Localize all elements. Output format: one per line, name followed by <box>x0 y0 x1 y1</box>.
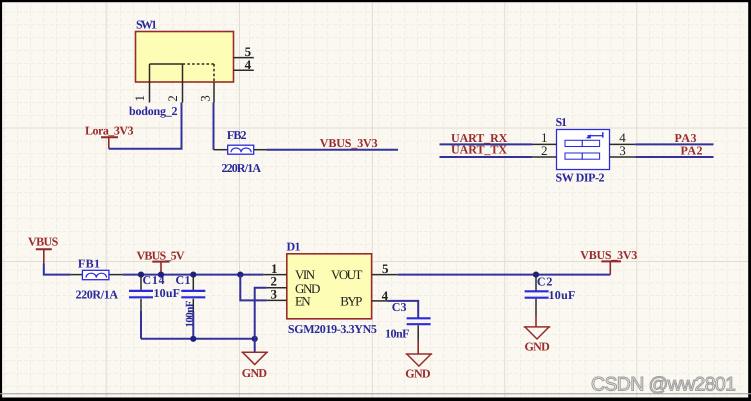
wire VBUS to FB1 <box>44 263 71 274</box>
svg-text:EN: EN <box>295 293 311 308</box>
pin 4 of S1 <box>610 143 636 145</box>
capacitor C14 <box>129 273 180 339</box>
wire UART_TX <box>440 156 533 158</box>
wire to ground symbol <box>254 339 256 352</box>
pin 5 VOUT <box>372 274 398 276</box>
svg-text:10uF: 10uF <box>154 286 181 300</box>
wire ground rail <box>141 338 255 340</box>
wire BYP to C3 <box>388 301 419 318</box>
ground (under C1/C14) <box>241 352 268 380</box>
svg-text:VBUS: VBUS <box>28 235 59 249</box>
svg-text:CSDN @ww2801: CSDN @ww2801 <box>591 374 736 396</box>
pin 4 of SW1 <box>234 69 254 71</box>
svg-text:C14: C14 <box>143 273 165 287</box>
junction at C14 <box>138 272 144 278</box>
wire GND branch <box>255 288 267 339</box>
svg-text:220R/1A: 220R/1A <box>222 161 262 175</box>
svg-text:FB1: FB1 <box>78 256 100 270</box>
svg-text:bodong_2: bodong_2 <box>129 104 178 118</box>
capacitor C2 <box>525 275 576 327</box>
svg-text:C2: C2 <box>537 275 553 289</box>
pin 3 EN <box>267 299 287 301</box>
svg-text:220R/1A: 220R/1A <box>76 287 119 301</box>
ferrite bead FB1 <box>71 256 123 301</box>
ground (under C2) <box>524 327 551 354</box>
capacitor C3 <box>385 300 431 354</box>
svg-text:2: 2 <box>541 143 548 158</box>
svg-text:FB2: FB2 <box>227 128 247 142</box>
capacitor C1 <box>176 273 206 339</box>
wire EN branch <box>240 275 266 301</box>
junction at VBUS_5V <box>158 272 164 278</box>
wire SW1 pin 3 down to FB2 <box>213 103 215 150</box>
svg-text:10uF: 10uF <box>549 288 576 302</box>
junction EN branch <box>237 272 243 278</box>
svg-text:SW DIP-2: SW DIP-2 <box>556 170 605 184</box>
svg-text:SGM2019-3.3YN5: SGM2019-3.3YN5 <box>288 322 377 336</box>
wire UART_RX <box>440 143 533 145</box>
svg-text:S1: S1 <box>556 115 568 129</box>
switch SW1 <box>132 18 254 103</box>
svg-text:3: 3 <box>271 287 278 302</box>
svg-text:C3: C3 <box>392 300 407 314</box>
svg-text:10nF: 10nF <box>385 327 410 341</box>
svg-text:GND: GND <box>405 366 431 380</box>
svg-text:VIN: VIN <box>295 267 316 282</box>
svg-text:SW1: SW1 <box>136 18 157 32</box>
power port VBUS <box>28 235 59 264</box>
junction at C2 <box>533 272 539 278</box>
power port Lora_3V3 <box>85 124 134 149</box>
ground (under C3) <box>405 354 432 380</box>
svg-text:BYP: BYP <box>340 293 362 308</box>
pin 2 GND <box>267 287 287 289</box>
svg-text:3: 3 <box>619 143 626 158</box>
border frame <box>0 0 751 2</box>
svg-text:Lora_3V3: Lora_3V3 <box>85 124 134 138</box>
svg-text:UART_TX: UART_TX <box>451 142 507 156</box>
svg-text:VBUS_5V: VBUS_5V <box>137 248 185 262</box>
svg-text:5: 5 <box>382 261 389 276</box>
svg-text:VBUS_3V3: VBUS_3V3 <box>320 136 378 150</box>
pin 2 of S1 <box>532 156 557 158</box>
svg-text:1: 1 <box>132 95 147 102</box>
switch S1 SW DIP-2 <box>532 115 635 184</box>
svg-text:3: 3 <box>198 95 213 102</box>
pin 3 of S1 <box>610 156 636 158</box>
svg-text:D1: D1 <box>287 240 301 254</box>
svg-text:VOUT: VOUT <box>331 267 362 282</box>
junction on ground rail at C1 <box>190 336 196 342</box>
wire PA2 <box>635 156 713 158</box>
svg-text:4: 4 <box>245 57 252 72</box>
pin 1 VIN <box>264 274 287 276</box>
junction at C1 <box>190 272 196 278</box>
wire Lora_3V3 to SW1 pin 2 <box>109 103 182 149</box>
svg-text:C1: C1 <box>176 273 191 287</box>
svg-text:PA2: PA2 <box>681 144 703 158</box>
wire PA3 <box>635 143 713 145</box>
ferrite bead FB2 <box>214 128 267 175</box>
pin 4 BYP <box>372 300 388 302</box>
pin 1 of S1 <box>532 143 557 145</box>
wire VOUT to VBUS_3V3 <box>398 274 611 276</box>
power port VBUS_3V3 (right) <box>580 248 637 275</box>
junction on ground rail at GND drop <box>252 336 258 342</box>
power port VBUS_5V <box>137 248 185 274</box>
svg-text:100nF: 100nF <box>184 300 196 327</box>
wire VBUS_5V rail <box>122 274 263 276</box>
regulator D1 <box>264 240 398 336</box>
wire VBUS_3V3 (top) <box>266 149 398 151</box>
svg-text:GND: GND <box>242 366 268 380</box>
pin 5 of SW1 <box>234 57 254 59</box>
svg-text:2: 2 <box>165 95 180 102</box>
svg-text:GND: GND <box>525 340 551 354</box>
svg-text:VBUS_3V3: VBUS_3V3 <box>580 248 637 262</box>
